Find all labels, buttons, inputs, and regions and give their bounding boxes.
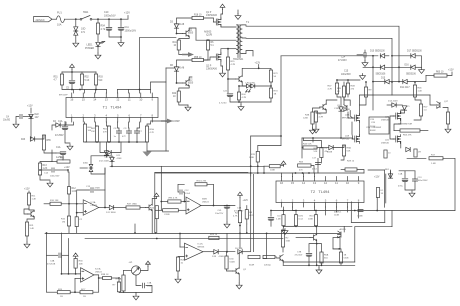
wire Q18 up	[359, 95, 373, 116]
svg-text:R40: R40	[60, 158, 65, 160]
wire VR1 left	[124, 270, 132, 272]
ground G26	[316, 268, 322, 274]
resistor R83	[320, 252, 323, 263]
wire C24 down	[364, 57, 366, 61]
svg-text:15K: 15K	[91, 131, 95, 133]
svg-text:4.7R: 4.7R	[242, 97, 247, 99]
wire loop x392	[391, 211, 393, 227]
wire R70 stub top	[257, 146, 259, 152]
bus wire B	[85, 237, 283, 239]
wire pin10 up	[139, 38, 141, 93]
junction rail 373	[372, 55, 374, 57]
svg-text:51D: 51D	[324, 258, 328, 260]
wire F vert105 down	[104, 168, 106, 208]
wire R11 top	[28, 191, 30, 193]
ground G6	[185, 105, 191, 111]
svg-text:4.7k: 4.7k	[101, 28, 106, 31]
bus wire A	[45, 232, 340, 234]
ground G7	[419, 68, 425, 74]
resistor R31	[25, 222, 28, 236]
wire R47 to L	[414, 116, 421, 120]
ground G8b	[360, 74, 366, 80]
wire IC1D out	[203, 251, 214, 253]
wire R45 top	[343, 82, 345, 86]
wire IC1D plus	[178, 256, 185, 259]
resistor R14	[226, 57, 229, 70]
svg-text:12V: 12V	[35, 117, 40, 119]
resistor R47	[419, 104, 422, 116]
ground G9	[238, 105, 244, 111]
wire below rail	[85, 141, 147, 143]
wire D24 left	[80, 167, 87, 169]
wire D17 out	[415, 56, 421, 68]
transistor Q12	[183, 80, 190, 87]
svg-text:103K: 103K	[270, 170, 276, 172]
svg-text:D11 4117: D11 4117	[400, 87, 410, 89]
svg-text:D5 14B: D5 14B	[235, 248, 243, 250]
wire vert 166 ext	[165, 121, 167, 151]
wire D9 top	[107, 156, 113, 158]
svg-text:41B/C1: 41B/C1	[334, 212, 342, 214]
svg-text:14: 14	[93, 98, 97, 102]
svg-text:1GB: 1GB	[286, 241, 291, 243]
op-amp IC1A	[83, 200, 99, 216]
junction R52b	[79, 89, 81, 91]
wire T1 sec mid	[242, 38, 392, 56]
svg-text:C15: C15	[344, 71, 349, 73]
wire pin4 down	[107, 122, 110, 126]
wire vert250	[250, 174, 252, 251]
svg-text:R13: R13	[43, 165, 48, 167]
wire D24 bot	[91, 168, 105, 174]
wire R44 bot	[270, 98, 272, 102]
svg-text:TRANS01: TRANS01	[233, 58, 244, 61]
wire D8 up	[106, 142, 108, 151]
svg-text:13N50A06: 13N50A06	[206, 68, 218, 71]
svg-text:VR5 4.7K: VR5 4.7K	[168, 198, 178, 200]
wire Q14 down	[151, 210, 153, 234]
wire R54 to LED1	[97, 34, 99, 42]
svg-text:10u/50: 10u/50	[3, 120, 11, 122]
ground G16	[24, 242, 30, 248]
resistor R61	[107, 126, 110, 142]
wire C8 down	[118, 133, 120, 142]
mosfet Q2	[214, 53, 221, 62]
wire drive bus1	[140, 37, 177, 39]
diode D14	[392, 103, 396, 107]
wire T2 pin4 feed	[314, 173, 316, 177]
wire R24 left	[47, 291, 58, 293]
wire bigloop v281	[280, 56, 282, 146]
wire Q20 drain	[401, 110, 405, 114]
ground G20	[310, 128, 316, 134]
wire R16m b	[156, 219, 158, 233]
junction R91t	[295, 210, 297, 212]
junction H2r3	[315, 225, 317, 227]
diode D12	[380, 65, 384, 69]
ground G17	[224, 222, 230, 228]
wire R65 gnd	[315, 122, 317, 127]
capacitor C13	[91, 188, 93, 193]
wire R72 down	[376, 198, 378, 211]
wire Q24 em	[238, 274, 240, 284]
svg-text:1000u/16V: 1000u/16V	[125, 29, 137, 32]
svg-text:47u/50V: 47u/50V	[55, 135, 64, 137]
wire pin7 down	[137, 122, 140, 131]
junction busA1	[134, 232, 136, 234]
svg-text:2SB546: 2SB546	[381, 120, 390, 122]
mosfet Q19	[352, 135, 359, 144]
svg-text:2SB546: 2SB546	[381, 143, 390, 145]
resistor R54	[96, 23, 99, 34]
ground G21	[313, 127, 319, 133]
wire Q16 up	[344, 97, 350, 106]
wire R85 chain	[339, 249, 341, 252]
wire row2b	[385, 66, 411, 68]
svg-text:414B: 414B	[219, 256, 225, 258]
svg-text:A06/05: A06/05	[204, 31, 212, 34]
wire J rail 265	[283, 264, 355, 266]
wire D4e right	[60, 122, 66, 125]
wire Q13 coll	[242, 68, 259, 76]
svg-text:COMP: COMP	[173, 120, 181, 123]
wire R14 to Q13	[228, 70, 236, 79]
junction I1	[118, 277, 120, 279]
wire D19 right	[242, 251, 250, 253]
svg-text:120K: 120K	[303, 118, 309, 120]
op-amp IC1C	[81, 268, 94, 283]
svg-text:R1A: R1A	[150, 128, 155, 131]
junction H6	[336, 79, 338, 81]
wire B1 to R54	[97, 19, 99, 23]
junction busA3	[46, 232, 48, 234]
resistor R44m	[303, 146, 317, 149]
svg-text:D14 4148: D14 4148	[388, 101, 398, 103]
svg-text:C1A: C1A	[56, 146, 61, 149]
capacitor C1e	[60, 152, 66, 155]
junction C5b	[71, 89, 73, 91]
capacitor CP1	[143, 283, 145, 288]
diode D3	[174, 24, 178, 28]
wire row3a	[373, 81, 385, 83]
svg-text:+12V: +12V	[243, 200, 249, 202]
power arrow VP2	[70, 64, 75, 69]
svg-text:15: 15	[82, 98, 86, 102]
wire LED2 right	[255, 85, 271, 87]
wire R25 top	[226, 252, 228, 256]
svg-text:R10 15K: R10 15K	[50, 200, 59, 202]
svg-text:800W: 800W	[370, 130, 375, 132]
resistor R23	[209, 236, 219, 239]
ground G27 solid	[143, 152, 152, 157]
wire R25 base	[227, 269, 233, 271]
resistor R53	[400, 129, 420, 132]
wire J mid	[282, 247, 284, 252]
wire R04 top	[239, 86, 246, 92]
wire R64 top	[313, 108, 321, 112]
resistor R63	[298, 164, 311, 167]
wire R33 left	[156, 209, 163, 211]
wire drive bus2	[166, 67, 174, 69]
junction R04b	[238, 101, 240, 103]
wire C18 top	[270, 211, 272, 217]
wire E rail	[30, 108, 32, 113]
svg-text:R58 10: R58 10	[194, 57, 202, 59]
wire Q17-R48	[443, 108, 448, 113]
svg-text:+12V: +12V	[24, 188, 30, 191]
mosfet Q18	[352, 114, 359, 123]
wire F top	[51, 150, 53, 162]
svg-text:510B: 510B	[230, 262, 236, 264]
wire R6 bot	[204, 50, 209, 60]
resistor R04	[237, 92, 240, 100]
wire B3 to C11	[120, 19, 122, 26]
wire J1 to fuse	[52, 18, 57, 20]
diode D17	[411, 54, 415, 58]
wire row2 drop	[391, 56, 393, 68]
svg-text:510R: 510R	[249, 265, 255, 267]
svg-text:13: 13	[313, 181, 317, 185]
wire D3 top	[177, 18, 193, 24]
junction Q27e	[338, 248, 340, 250]
diode D28	[406, 147, 410, 151]
ground G2	[95, 53, 101, 59]
wire R51 down	[62, 85, 107, 90]
wire loop top2	[155, 172, 248, 174]
svg-text:FU1: FU1	[57, 12, 62, 15]
wire C5 stub	[71, 72, 73, 80]
wire vert161	[160, 166, 162, 210]
wire R51 stub	[61, 72, 63, 74]
wire R40 left	[52, 161, 57, 163]
junction K6	[246, 232, 248, 234]
transistor Q16	[344, 105, 348, 112]
wire pin14 up	[95, 90, 97, 94]
transistor Q13	[236, 76, 243, 83]
zener BD1	[388, 174, 392, 178]
resistor R64	[311, 112, 314, 124]
wire gnd branch y151	[147, 150, 169, 152]
junction row2c399	[398, 66, 400, 68]
svg-text:47u/10B: 47u/10B	[47, 264, 56, 266]
wire R45-Q16	[343, 97, 345, 104]
wire pin16 up	[73, 90, 75, 94]
wire row3c	[407, 76, 426, 82]
resistor R91	[294, 215, 297, 226]
svg-text:51K: 51K	[347, 151, 351, 153]
junction I3b	[226, 251, 228, 253]
resistor R15m	[168, 200, 181, 203]
wire pin5 down	[118, 122, 120, 131]
diode D6	[174, 67, 178, 71]
junction K3	[250, 172, 252, 174]
capacitor C12	[180, 190, 182, 194]
diode D10	[380, 54, 384, 58]
svg-text:D15: D15	[381, 78, 386, 80]
junction r2 373	[372, 66, 374, 68]
wire loop2 x3855	[385, 174, 387, 203]
svg-text:C1B: C1B	[237, 208, 242, 210]
wire D26 chain	[340, 97, 342, 107]
wire R41 down	[179, 50, 187, 55]
resistor R16m	[155, 206, 158, 219]
wire bot gnd	[135, 293, 137, 295]
wire J rail262	[282, 261, 284, 263]
wire R75 bot	[239, 223, 241, 248]
zener D24	[89, 164, 93, 171]
resistor R68	[342, 145, 345, 156]
wire R36 up	[246, 206, 248, 210]
wire loop y226	[355, 226, 392, 228]
svg-text:R42: R42	[172, 93, 177, 95]
svg-text:13u/70V: 13u/70V	[215, 213, 224, 215]
svg-text:5.1K: 5.1K	[85, 80, 90, 82]
ground G14	[47, 181, 53, 187]
wire vert262	[263, 233, 267, 258]
wire Q1 drain up	[221, 14, 223, 20]
resistor R6	[206, 40, 209, 50]
wire C18 bot	[270, 221, 272, 227]
wire R66 stub	[336, 80, 338, 83]
svg-text:10: 10	[139, 98, 143, 102]
svg-text:R51: R51	[54, 77, 59, 79]
op-amp U2 TL494	[276, 181, 364, 203]
svg-text:D11 1N60: D11 1N60	[106, 212, 116, 214]
wire R24-R27	[70, 291, 80, 293]
svg-text:R37 1N60: R37 1N60	[127, 204, 138, 206]
LED LED2a	[246, 84, 250, 88]
wire D26 down	[340, 111, 342, 138]
potentiometer VR1	[131, 266, 140, 275]
wire bigloop y145	[258, 145, 281, 147]
svg-text:R6A: R6A	[314, 147, 319, 150]
resistor R13	[38, 163, 41, 175]
wire Q21 gate col	[390, 116, 394, 139]
wire R6 stub	[207, 39, 209, 41]
wire vert 373	[372, 56, 374, 95]
svg-text:12: 12	[324, 181, 328, 185]
svg-text:11: 11	[128, 98, 131, 102]
junction K3b	[250, 165, 252, 167]
resistor R70	[256, 151, 259, 162]
wire R13 gnd	[40, 175, 50, 180]
svg-text:R23 10: R23 10	[210, 234, 218, 236]
svg-text:103K: 103K	[308, 219, 314, 221]
zener D9	[110, 157, 114, 161]
resistor R25	[225, 256, 228, 269]
wire T2 pin5 down	[325, 207, 327, 215]
svg-text:SW1: SW1	[83, 11, 89, 14]
junction loop136	[280, 135, 282, 137]
wire IC1C out	[94, 275, 103, 278]
wire loopB v351	[350, 202, 352, 223]
svg-text:8050: 8050	[188, 33, 194, 35]
resistor R65	[314, 111, 317, 122]
wire Q2 drain	[221, 49, 228, 55]
junction H2r1	[283, 225, 285, 227]
wire R53 right	[420, 130, 428, 132]
wire R13 top	[40, 162, 52, 164]
wire Q12 coll	[189, 77, 192, 81]
junction v161	[160, 201, 162, 203]
resistor R12	[67, 187, 70, 194]
wire D7 right	[111, 142, 121, 153]
svg-text:Q2 P: Q2 P	[206, 66, 212, 68]
wire D4e left	[52, 125, 56, 130]
junction H7	[347, 79, 349, 81]
junction fbout	[213, 205, 215, 207]
capacitor C11	[118, 27, 124, 30]
wire D11o right	[114, 207, 126, 209]
svg-text:+12V: +12V	[255, 62, 261, 65]
resistor R15l	[67, 216, 70, 226]
svg-text:IC1/C: IC1/C	[198, 244, 204, 246]
wire H8 stub	[312, 138, 314, 142]
diode D16	[411, 65, 415, 69]
junction IC1B out2	[226, 205, 228, 207]
resistor R21	[269, 70, 272, 82]
wire R15m right	[181, 201, 186, 203]
wire loop2 x385	[384, 170, 386, 207]
svg-text:4.7K: 4.7K	[328, 89, 333, 91]
ground G13	[13, 122, 19, 128]
wire G4 stem	[237, 10, 239, 14]
wire D27 wires	[317, 147, 329, 149]
wire R29 stub	[357, 170, 364, 174]
svg-text:R44 51K: R44 51K	[303, 144, 312, 146]
resistor R67	[346, 83, 349, 94]
wire Q2 source gnd	[222, 66, 224, 71]
op-amp IC1B	[186, 197, 201, 214]
transistor Q17	[437, 102, 441, 109]
svg-text:474B: 474B	[95, 188, 101, 190]
svg-text:11: 11	[335, 181, 338, 185]
power arrow VP4	[73, 253, 78, 258]
wire G12 stem	[146, 142, 148, 151]
wire +12V stub	[127, 16, 129, 20]
junction rail D10	[391, 55, 393, 57]
wire pin6 down	[128, 122, 131, 131]
svg-text:470u: 470u	[398, 186, 404, 188]
svg-text:R5A: R5A	[324, 254, 329, 257]
ground G11	[67, 144, 73, 150]
transistor Q22	[320, 104, 327, 111]
connector J1	[34, 17, 53, 22]
wire C19 bot	[405, 182, 412, 190]
wire R60 left	[426, 75, 434, 77]
junction row3	[398, 81, 400, 83]
zener D23	[30, 137, 34, 141]
svg-text:IC1/A: IC1/A	[95, 268, 101, 271]
wire C19 stub	[404, 171, 406, 178]
resistor R39	[117, 282, 120, 292]
junction R03b	[95, 89, 97, 91]
svg-text:+12V: +12V	[448, 69, 454, 72]
resistor R82	[281, 230, 284, 247]
wire Q27 em	[337, 236, 339, 239]
mosfet Q21	[393, 135, 400, 144]
wire R49 bot	[359, 97, 366, 105]
wire R10 left	[44, 203, 50, 205]
diode D4e	[56, 123, 60, 127]
junction rail210b	[376, 210, 378, 212]
svg-text:47K: 47K	[103, 132, 107, 134]
wire R15l bot	[68, 226, 70, 233]
varistor RV1	[74, 27, 78, 35]
wire R83 bot	[321, 263, 323, 265]
svg-text:22DDp: 22DDp	[264, 265, 272, 267]
wire Q22 coll	[326, 100, 337, 105]
